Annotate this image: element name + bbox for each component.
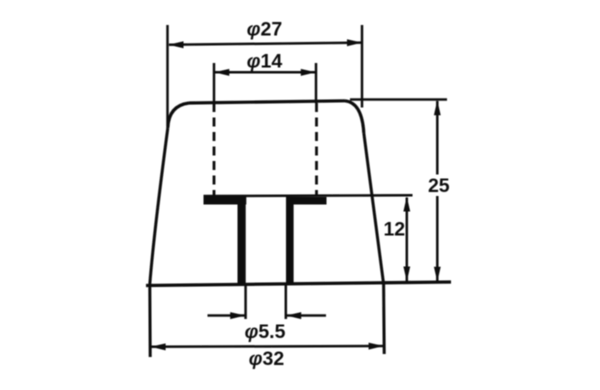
phi5.5 right extension line [285, 285, 288, 319]
phi14 left arrowhead [214, 69, 229, 76]
25 dim top extension line [350, 98, 447, 101]
phi27 right arrowhead [347, 39, 362, 46]
12 up arrowhead [403, 197, 410, 212]
outline: left slanted side + phi32 left extension [150, 128, 168, 357]
phi27 dimension line [169, 43, 362, 45]
phi5.5 left dimension tail [208, 314, 245, 317]
washer right stem wall [286, 204, 294, 284]
phi14 right extension line [315, 63, 318, 103]
svg-text:φ32: φ32 [249, 348, 285, 370]
outline: top-left rounded corner [168, 103, 189, 128]
phi14 left extension line [213, 63, 216, 103]
washer left stem wall [238, 204, 246, 284]
phi27 left arrowhead [169, 41, 184, 48]
svg-text:φ14: φ14 [247, 51, 283, 73]
25 down arrowhead [434, 267, 441, 282]
phi32 right arrowhead [369, 343, 384, 350]
12 dimension line [406, 198, 409, 282]
25 up arrowhead [434, 100, 441, 115]
phi32 dimension line [151, 345, 383, 348]
outline: right slanted side + phi32 right extension [364, 133, 384, 354]
outline: bottom line (also lower extension for 25 and 12 dims) [146, 282, 451, 286]
25 dimension line lower segment [436, 196, 439, 281]
outline: top edge of foot [189, 101, 345, 103]
phi5.5 right arrowhead (points left) [286, 312, 301, 319]
phi5.5 left extension line [244, 285, 247, 319]
hidden hole line left (dashed phi14) [213, 103, 216, 196]
svg-text:φ5.5: φ5.5 [245, 321, 286, 343]
phi5.5 right dimension tail [287, 314, 327, 317]
outline: top-right rounded corner [345, 101, 364, 133]
svg-text:12: 12 [383, 219, 405, 241]
svg-text:25: 25 [428, 175, 450, 197]
washer right flange bar [286, 197, 327, 205]
phi14 right arrowhead [301, 69, 316, 76]
washer top line (also extension line for 12 dim) [204, 194, 413, 197]
phi14 dimension line [215, 71, 315, 74]
hidden hole line right (dashed phi14) [315, 103, 318, 196]
phi27 right extension line [361, 25, 364, 108]
12 down arrowhead [403, 267, 410, 282]
svg-text:φ27: φ27 [247, 19, 282, 41]
phi32 left arrowhead [151, 343, 166, 350]
phi5.5 left arrowhead (points right) [230, 312, 245, 319]
washer left flange bar [204, 197, 247, 205]
25 dimension line upper segment [436, 101, 439, 175]
phi27 left extension line [166, 25, 169, 126]
